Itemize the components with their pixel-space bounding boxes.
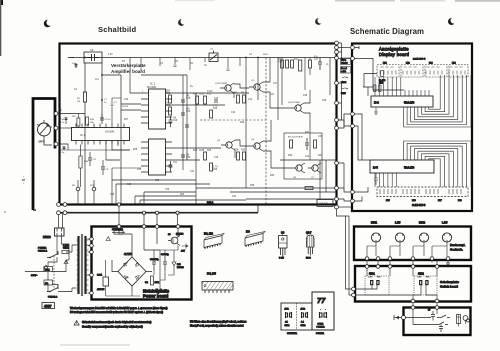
svg-text:C24 470p: C24 470p (150, 259, 160, 261)
fuse SI601 (62, 250, 69, 253)
resistor R01 (77, 118, 80, 126)
power board left connector y252 (90, 250, 94, 254)
transformer primary joins (72, 245, 77, 288)
SM1 dashed enclosure (365, 276, 389, 295)
channel divider dashed horizontal (200, 119, 266, 121)
transistor Q6 (296, 165, 302, 171)
voltage selector cap C601 (44, 267, 53, 272)
drop wire x144 (143, 214, 145, 225)
capacitor C3 box (84, 52, 102, 63)
resistor R13b (309, 60, 312, 68)
channel divider dashed vertical (265, 58, 267, 206)
svg-text:C30: C30 (124, 99, 129, 101)
svg-text:T12K: T12K (207, 91, 213, 93)
display left connector y114 (351, 112, 355, 116)
svg-text:IC 2: IC 2 (80, 133, 86, 137)
svg-text:4557: 4557 (44, 304, 52, 308)
svg-text:C13: C13 (231, 112, 236, 114)
svg-text:R37: R37 (124, 119, 129, 121)
mains wiring (44, 235, 72, 292)
svg-text:100k: 100k (155, 282, 159, 284)
motor box wiring row 1 (406, 309, 438, 317)
pin circle middle (54, 126, 58, 130)
trimmer C5 wiper (210, 51, 217, 61)
LED module 2 pins (403, 71, 419, 75)
resistor R8 (237, 95, 240, 103)
wire vertical from C3 left (84, 63, 86, 92)
wire R2 down to bus (84, 102, 86, 204)
bus junction x157 (155, 211, 158, 214)
socket bottom connector x378 (376, 257, 380, 261)
wire vertical x121 (102, 75, 121, 204)
spiral 2 ring F (422, 154, 450, 187)
Q2 legs (249, 82, 263, 92)
svg-text:1W4: 1W4 (379, 82, 383, 84)
package IC3 3D body (245, 234, 263, 246)
svg-text:R32: R32 (305, 132, 310, 134)
capacitor C17 (318, 58, 322, 71)
svg-text:SW1: SW1 (263, 54, 269, 56)
transistor Q2 (254, 84, 260, 90)
TP wires to bus (78, 180, 94, 204)
transformer winding left (77, 236, 79, 294)
gap wire y47.5 (338, 47, 350, 49)
amp right border connector y188 (335, 186, 339, 190)
driver IC3 body (371, 96, 433, 107)
svg-text:R35: R35 (250, 185, 255, 187)
IC2 top pins (76, 124, 124, 128)
bridge diode 1 (124, 263, 128, 267)
display wire from y59 (354, 59, 404, 97)
display wire from y192 (354, 187, 368, 192)
svg-text:SM-1: SM-1 (285, 325, 291, 327)
svg-text:R14: R14 (193, 94, 198, 96)
svg-text:R28: R28 (234, 150, 239, 152)
resistor R10 (281, 60, 284, 68)
fuse holder (457, 315, 461, 324)
svg-text:47n: 47n (45, 283, 48, 285)
svg-text:POWER: POWER (38, 248, 47, 250)
gap wire y58 (338, 58, 350, 60)
bus routing nest 2 (116, 184, 210, 204)
resistor lower R27 (204, 152, 207, 160)
capacitor C10 (214, 100, 218, 102)
svg-text:Anzeigeplatte: Anzeigeplatte (379, 47, 409, 52)
driver IC5 body (370, 160, 434, 173)
svg-text:SM-2: SM-2 (301, 325, 307, 327)
gap wire y128 (338, 114, 350, 128)
spiral 2 ring C (411, 146, 463, 187)
display left connector y59 (351, 57, 355, 61)
pin circle upper (54, 112, 58, 116)
input wire upper (58, 113, 85, 115)
package Q17 hatch (308, 235, 314, 246)
svg-text:A TR: A TR (301, 308, 306, 311)
display resistor R22 (378, 85, 381, 92)
display wire from y47 (354, 46, 359, 49)
gap wire y120 (338, 120, 350, 126)
resistor lower R26 (243, 152, 246, 160)
display wire from y201 (354, 197, 362, 202)
IC2 bottom pins (76, 141, 124, 145)
package ID hatch (206, 244, 220, 247)
svg-text:R30: R30 (288, 155, 293, 157)
svg-text:120V~: 120V~ (31, 275, 38, 277)
svg-text:R2 ZCL/TKA R: R2 ZCL/TKA R (288, 136, 303, 139)
jack stem (459, 320, 466, 326)
switch arrow mark 2 (342, 88, 348, 89)
spiral 1 ring F (422, 75, 450, 114)
boxed label 4557 (42, 303, 55, 309)
bus circle 2b (63, 211, 67, 215)
socket bottom connector x413 (411, 257, 415, 261)
display left connector y192 (351, 190, 355, 194)
power out arrow (182, 244, 188, 249)
svg-text:Q5 BC546B: Q5 BC546B (288, 102, 300, 104)
svg-text:C18: C18 (173, 120, 178, 122)
wire x310 stub (309, 58, 311, 76)
wire vertical x326 lower (325, 160, 327, 192)
mid horizontal link y168 (112, 168, 141, 180)
svg-text:1x LB-303 G: 1x LB-303 G (413, 59, 426, 61)
wire vertical x282 (281, 58, 283, 106)
svg-text:UAA 170: UAA 170 (404, 166, 415, 170)
electrolytic C24 (152, 256, 156, 270)
capacitor C16 (181, 113, 185, 115)
socket LBU2 (442, 233, 451, 242)
svg-text:MAINS: MAINS (43, 236, 51, 239)
spiral 2 ring E (418, 151, 454, 187)
package Q8 legs (281, 248, 286, 257)
transformer winding ticks left (77, 240, 79, 290)
svg-text:C22: C22 (305, 156, 310, 158)
wire horizontal y160 right (280, 159, 336, 161)
power switch contact 2 (47, 285, 58, 292)
svg-text:1M: 1M (173, 118, 176, 120)
display left connector y47.5 (351, 46, 355, 50)
right cell switch glyph (319, 312, 327, 318)
svg-text:UAA 170: UAA 170 (404, 101, 415, 105)
junction circle display bottom (335, 205, 339, 209)
svg-text:R26: R26 (213, 169, 218, 171)
svg-text:Q1-7: Q1-7 (306, 232, 312, 235)
cell1 switch glyph (285, 312, 292, 318)
wire horizontal y93 (172, 92, 249, 94)
input wire lower (58, 144, 68, 150)
input wire middle (58, 127, 72, 129)
gap wire y199 (338, 199, 350, 201)
spiral 1 ring D (414, 75, 458, 119)
fuse SI1 bar (112, 231, 125, 233)
LED display dashed box 1c (425, 65, 447, 78)
svg-text:SW601-1: SW601-1 (38, 251, 48, 253)
svg-text:112B: 112B (199, 150, 205, 152)
motor switch board outline (404, 308, 471, 336)
bottom page dot (4, 211, 5, 212)
spiral 2 ring G (425, 156, 445, 187)
right cell dots (320, 309, 326, 311)
switch contact dots 1 (49, 257, 51, 259)
IC1 lower left pins (141, 142, 149, 172)
LED module 4 pins (449, 71, 465, 75)
switch label box 2 (341, 67, 351, 74)
LED display dashed box 1d (449, 65, 468, 78)
power board left connector y239 (90, 237, 94, 241)
svg-text:Security component (must be re: Security component (must be replaced by … (82, 326, 143, 329)
resistor R5 (169, 95, 172, 103)
package ID 3D top edge (204, 234, 224, 241)
wire from x178 down (177, 228, 179, 237)
table right cell (312, 292, 334, 330)
spiral 2 ring D (414, 149, 458, 187)
svg-text:L.BU: L.BU (395, 222, 401, 225)
wire vertical x187 (186, 75, 188, 160)
package ID 3D body (204, 236, 222, 248)
IC5 bottom pin wires (375, 173, 397, 187)
svg-text:SM-1: SM-1 (369, 273, 375, 276)
svg-text:C29: C29 (318, 136, 323, 138)
bus routing nest 3 (135, 196, 196, 204)
switch board top connector x367 (365, 265, 369, 269)
power board top connector x157 (155, 225, 159, 229)
svg-text:C16: C16 (186, 111, 191, 113)
LED module 2 top marks (404, 66, 417, 68)
svg-text:Buchsenpl.: Buchsenpl. (450, 243, 465, 247)
junction rail x246 (245, 57, 247, 59)
junction C7 node (101, 99, 103, 101)
switch contact row2 (439, 322, 448, 325)
svg-text:4x LB-303 G: 4x LB-303 G (412, 204, 426, 207)
amp right border connector y58 (335, 56, 339, 60)
transistor Q1 (225, 85, 231, 91)
package IC45 hatch (202, 282, 233, 291)
svg-text:(DC)9763: (DC)9763 (176, 234, 183, 236)
svg-text:C601: C601 (45, 270, 50, 272)
scatter labels amp board (74, 53, 329, 198)
svg-text:56K: 56K (90, 122, 94, 124)
wire Q5 collector (304, 90, 310, 130)
switch board bottom connector x437 (435, 299, 439, 303)
resistor R9 (243, 95, 246, 103)
power board left connector y275 (90, 273, 94, 277)
package IC3 3D top (245, 232, 265, 239)
electrolytic C25 (163, 256, 167, 270)
gap vertical link (338, 43, 341, 59)
svg-text:C3: C3 (90, 48, 94, 52)
input coupling cap C34 (65, 117, 68, 124)
capacitor C3 plates (87, 54, 99, 61)
resistor fb R31 (314, 140, 317, 148)
svg-text:1M: 1M (186, 155, 189, 157)
svg-text:R40 1: R40 1 (207, 202, 214, 205)
transformer winding right (84, 236, 86, 294)
rail stub caps left (140, 58, 241, 72)
socket bottom connector x432 (430, 257, 434, 261)
tape head circle (38, 123, 51, 136)
transformer taps to board (88, 239, 90, 293)
zener D10 (172, 258, 176, 270)
svg-text:Socket b.: Socket b. (450, 248, 463, 252)
wire horizontal y188 (196, 187, 336, 189)
top edge scan smudge 1 (335, 0, 395, 2)
svg-text:R29: R29 (241, 150, 246, 152)
wire horizontal Q2 out (263, 58, 290, 109)
svg-text:Normal: Normal (341, 67, 347, 70)
resistor R2 (83, 92, 86, 102)
socket BU01 (371, 233, 380, 242)
svg-text:DC voltages: tol ± 15% measure: DC voltages: tol ± 15% measured with vol… (70, 310, 163, 314)
Q3 legs (221, 140, 235, 150)
svg-text:Schaltbild: Schaltbild (98, 25, 136, 34)
test point circle TP2 (92, 187, 96, 191)
svg-text:R10: R10 (278, 62, 283, 64)
svg-text:Für Werte ohne Bezeichnung gil: Für Werte ohne Bezeichnung gilt pF oder … (190, 321, 247, 324)
spiral 1 ring E (418, 75, 454, 117)
wire vertical x258 (257, 58, 259, 101)
bridge wires (112, 228, 152, 291)
svg-text:A I A: A I A (285, 308, 290, 311)
svg-text:C21: C21 (173, 162, 178, 164)
wire horizontal y88 Q1-Q2 (234, 84, 249, 98)
switch board top connector x437 (435, 265, 439, 269)
gap wire y188 (338, 188, 350, 192)
junction rail x85 (84, 57, 86, 59)
extra vertical x305 (305, 58, 310, 161)
drop wire x177 (177, 214, 179, 225)
power board left connector y293 (90, 291, 94, 295)
cap at pin upper (59, 108, 62, 111)
IC1 lower body (149, 139, 166, 175)
switch board outline (355, 266, 471, 302)
resistor R33 (86, 117, 89, 125)
svg-text:IC4, IC5: IC4, IC5 (207, 273, 216, 276)
top edge scan smudge 2 (400, 0, 445, 1)
capacitor C9 (100, 114, 104, 124)
switch label box 1 (341, 58, 351, 65)
switch board bottom connector x413 (411, 299, 415, 303)
wire R36 (80, 145, 82, 188)
mains connector pins (57, 228, 62, 235)
svg-text:C28: C28 (322, 100, 327, 102)
wire Q4 out (263, 120, 292, 168)
gap vertical link low (338, 163, 344, 188)
package IC45 notch (204, 285, 206, 287)
registration crescent 3 (315, 17, 324, 25)
warning exclaim (76, 322, 78, 324)
svg-text:E B C: E B C (306, 258, 311, 260)
wire from x157 down (156, 228, 158, 244)
svg-text:L.BU: L.BU (442, 222, 448, 225)
power interior wires (106, 246, 178, 297)
capacitor C1 input (70, 58, 78, 69)
display ground stub (374, 108, 378, 114)
wire vertical x196 (195, 93, 197, 204)
socket LBU1 (395, 233, 404, 242)
wire vertical x330 (329, 58, 331, 96)
switch arrow mark 1 (342, 77, 348, 78)
trimmer C5 (209, 53, 218, 62)
svg-text:B C E: B C E (279, 258, 284, 260)
SM1 switch glyph (371, 280, 379, 285)
socket BU02 pins (421, 235, 427, 242)
socket internal wires (367, 242, 447, 256)
wire vertical x183 (182, 75, 184, 170)
socket bottom connector x448 (446, 257, 450, 261)
LED module 3 top marks (427, 66, 440, 68)
LED box2 pins (380, 189, 461, 194)
svg-text:77: 77 (317, 296, 326, 305)
IC1 upper body (149, 89, 166, 129)
svg-text:1: 1 (142, 91, 143, 93)
svg-text:C35: C35 (110, 194, 115, 196)
gap vertical link mid (338, 83, 341, 120)
motor box left connector (402, 316, 406, 320)
switch board top connector x390 (388, 265, 392, 269)
bus circle 1b (63, 203, 67, 207)
svg-text:R05: R05 (166, 93, 171, 95)
wire vertical from C3 right (101, 63, 103, 120)
package IC45 body (202, 282, 233, 291)
svg-text:R22: R22 (155, 180, 160, 182)
power board top connector x119 (117, 225, 121, 229)
svg-text:TAPE: TAPE (341, 81, 347, 84)
svg-text:SM-2: SM-2 (418, 273, 424, 276)
svg-text:ID1, ID2: ID1, ID2 (204, 233, 213, 236)
ground symbol socket (446, 260, 450, 265)
socket LBU2 pins (444, 235, 450, 242)
link wires sockets to switches (367, 260, 437, 264)
svg-text:SN-3041: SN-3041 (147, 86, 157, 89)
svg-text:12V: 12V (181, 251, 185, 253)
svg-text:Q1 BC546B: Q1 BC546B (215, 83, 227, 85)
transistor Q5 (295, 105, 301, 111)
table left group (281, 303, 312, 330)
spiral 2 ring B (407, 144, 467, 187)
amplifier board outline (60, 44, 337, 205)
feedback network box (284, 133, 322, 179)
resistor lower R28 (210, 163, 213, 171)
headphone jack circles (463, 316, 468, 321)
top edge scan smudge 4 (175, 0, 215, 1)
wire into IC1 left (121, 58, 141, 111)
power board outline (92, 227, 192, 300)
bridge diode 3 (125, 276, 129, 280)
gap wire display bottom (338, 206, 351, 208)
svg-text:1M: 1M (166, 103, 169, 105)
svg-text:C36: C36 (165, 189, 170, 191)
tape head arrow (40, 125, 49, 135)
svg-text:C27: C27 (273, 83, 278, 85)
svg-text:4700/35: 4700/35 (97, 289, 105, 291)
spiral 1 ring A (404, 75, 472, 127)
svg-text:IC 5: IC 5 (373, 166, 378, 170)
cap C7b lower left (63, 146, 66, 150)
svg-text:C23A: C23A (97, 274, 103, 277)
svg-text:SI1 TAFR-RB: SI1 TAFR-RB (112, 228, 124, 231)
amp right border connector y120 (335, 118, 339, 122)
LED display dashed box 1b (401, 65, 423, 78)
bus lower rail 2 (57, 212, 258, 214)
svg-text:C33: C33 (137, 169, 142, 171)
svg-text:1.25A: 1.25A (63, 244, 69, 247)
capacitor lower C20 (181, 155, 185, 157)
svg-text:Schalterplatte: Schalterplatte (440, 280, 459, 284)
bridge rectifier GL1 (118, 257, 146, 286)
tape head gap mark (37, 120, 44, 126)
SM2 arrows (417, 275, 430, 278)
cap C50 (439, 325, 443, 333)
svg-text:Schematic Diagram: Schematic Diagram (350, 27, 424, 36)
